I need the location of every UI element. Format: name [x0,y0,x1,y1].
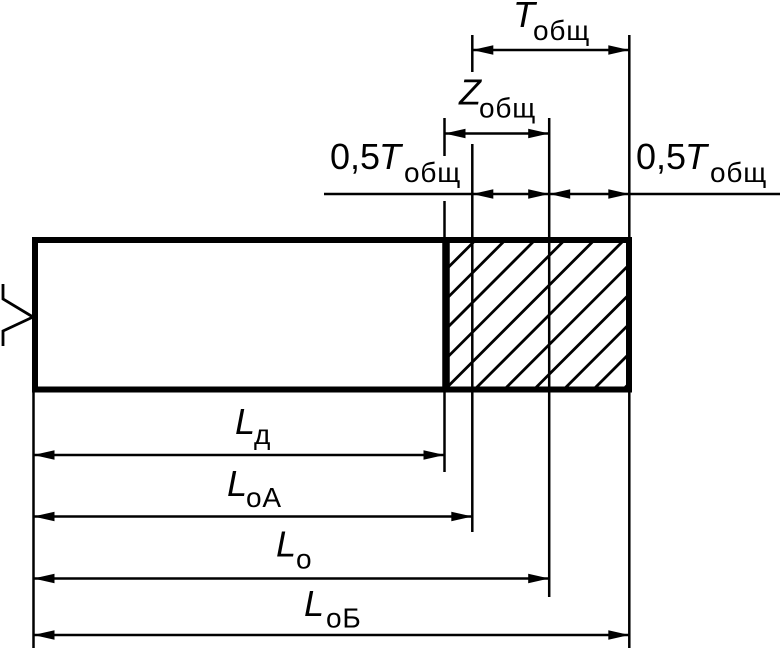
extension line x=472.3 long segment [471,144,474,532]
svg-text:0,5: 0,5 [330,136,380,177]
svg-text:L: L [276,523,296,564]
dimension 0,5Т_общ left pair: right arrowhead [528,189,549,199]
machining allowance boundary (thick line) [442,237,450,393]
extension line x=549.2 [548,118,551,597]
0,5Т_общ horizontal line [324,193,780,196]
dimension Z_общ line [445,132,550,135]
dimension 0,5Т_общ right pair: right arrowhead [608,189,629,199]
part outline rectangle [35,240,629,390]
svg-text:T: T [685,136,710,177]
svg-text:0,5: 0,5 [636,136,686,177]
dimension L_оБ left arrowhead [34,630,55,640]
dimension L_о right arrowhead [528,574,549,584]
svg-text:L: L [235,401,255,442]
dimension L_о left arrowhead [34,574,55,584]
break symbol on left edge [3,284,33,346]
dimension Т_общ left arrowhead [472,45,493,55]
svg-text:общ: общ [533,15,590,46]
extension line x=444.5 lower segment [443,393,446,473]
svg-text:общ: общ [479,92,536,123]
dimension 0,5Т_общ right pair: left arrowhead [549,189,570,199]
dimension L_д right arrowhead [424,450,445,460]
hatched allowance region [293,233,780,393]
extension line left datum x=33.5 [32,393,35,649]
dimension 0,5Т_общ left pair: left arrowhead [472,189,493,199]
svg-text:оА: оА [246,482,282,513]
svg-text:д: д [254,419,271,450]
dimension L_оБ right arrowhead [608,630,629,640]
dimension L_о line [34,577,550,580]
dimension L_д left arrowhead [34,450,55,460]
dimension L_оБ line [34,634,630,637]
svg-text:общ: общ [404,157,461,188]
dimension L_д line [34,454,445,457]
extension line x=472.3 top segment [471,35,474,72]
dimension Z_общ right arrowhead [528,129,549,139]
dimension Т_общ line [472,49,629,52]
svg-text:L: L [304,583,324,624]
svg-text:о: о [296,543,312,574]
extension line x=444.5 middle segment [443,201,446,237]
svg-text:общ: общ [710,157,767,188]
dimension L_оА line [34,515,473,518]
extension line x=444.5 upper segment [443,118,446,156]
extension line x=629.3 [628,35,631,648]
svg-text:T: T [379,136,404,177]
dimension L_оА left arrowhead [34,512,55,522]
dimension L_оА right arrowhead [451,512,472,522]
svg-text:оБ: оБ [326,603,362,634]
svg-text:L: L [227,463,247,504]
dimension Z_общ left arrowhead [445,129,466,139]
dimension Т_общ right arrowhead [608,45,629,55]
